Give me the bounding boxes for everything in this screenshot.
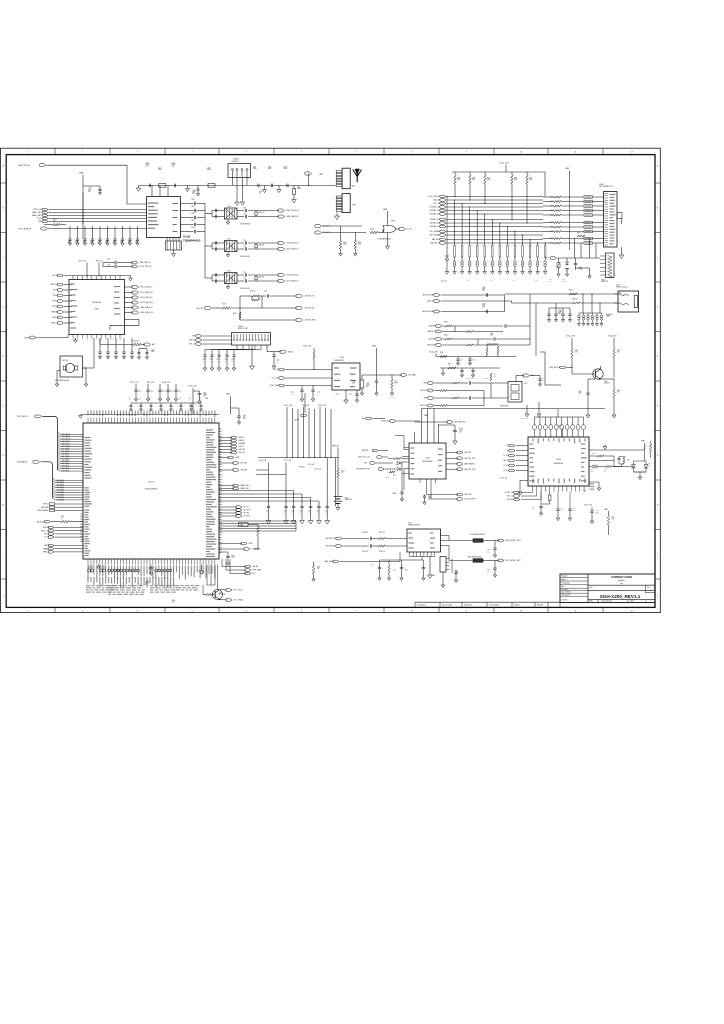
svg-text:Time Changed:: Time Changed: — [489, 604, 500, 606]
svg-text:AUDOUTN: AUDOUTN — [428, 344, 437, 347]
svg-text:18P: 18P — [83, 242, 85, 244]
svg-text:L139 BLM18PG181SN1D: L139 BLM18PG181SN1D — [467, 556, 482, 558]
svg-text:100NF: 100NF — [138, 391, 142, 393]
svg-text:VCCL_LIN: VCCL_LIN — [284, 460, 291, 462]
svg-text:C119: C119 — [107, 258, 110, 260]
svg-text:10NH: 10NH — [297, 188, 301, 190]
svg-text:C167: C167 — [459, 428, 462, 430]
svg-text:VCCD_2.8V: VCCD_2.8V — [78, 260, 86, 262]
svg-text:COL_DET: COL_DET — [272, 378, 279, 380]
svg-text:VEC_LCD: VEC_LCD — [507, 496, 515, 498]
svg-text:100K: 100K — [358, 244, 361, 246]
svg-text:100NF: 100NF — [572, 510, 576, 512]
svg-text:DSP_DB(12): DSP_DB(12) — [62, 441, 71, 443]
svg-text:Size: Size — [647, 587, 650, 589]
svg-text:VCCD_2.8V: VCCD_2.8V — [130, 382, 138, 384]
svg-text:R160: R160 — [448, 364, 451, 366]
svg-text:R158: R158 — [440, 352, 443, 354]
svg-text:10V: 10V — [232, 361, 234, 363]
svg-text:S-80840CLNB: S-80840CLNB — [334, 360, 344, 362]
svg-text:1UF: 1UF — [189, 399, 191, 401]
svg-text:09:45:51: 09:45:51 — [514, 604, 520, 606]
svg-text:16V: 16V — [583, 493, 585, 495]
svg-text:DTC114TE: DTC114TE — [219, 594, 226, 596]
svg-text:1UF: 1UF — [199, 399, 201, 401]
svg-text:100PF: 100PF — [284, 168, 288, 170]
svg-text:10V: 10V — [217, 361, 219, 363]
svg-text:4.7U: 4.7U — [472, 360, 475, 362]
svg-text:T101: T101 — [227, 238, 231, 240]
svg-text:10V: 10V — [291, 512, 293, 514]
svg-text:SCL_1V8: SCL_1V8 — [433, 203, 440, 205]
svg-text:R108: R108 — [343, 242, 347, 244]
svg-text:47K: 47K — [317, 568, 319, 570]
svg-text:R173 47K: R173 47K — [379, 551, 385, 553]
svg-text:18P: 18P — [135, 242, 137, 244]
svg-text:1.5P: 1.5P — [243, 213, 246, 215]
svg-text:ROW_SENS: ROW_SENS — [270, 385, 279, 387]
svg-text:6.3V: 6.3V — [243, 418, 246, 420]
svg-text:SFU-1.9GHZ(S): SFU-1.9GHZ(S) — [240, 288, 250, 290]
svg-text:VMICC_EN: VMICC_EN — [33, 209, 43, 211]
svg-text:R190 0: R190 0 — [444, 322, 448, 324]
svg-text:R121 NC: R121 NC — [250, 291, 255, 293]
svg-text:68PF: 68PF — [268, 168, 271, 170]
svg-text:UP_SDI: UP_SDI — [244, 513, 250, 515]
svg-text:10UF: 10UF — [349, 394, 352, 396]
svg-text:DPCS_PWR_IN: DPCS_PWR_IN — [140, 266, 152, 268]
svg-text:U110: U110 — [408, 523, 412, 525]
svg-text:22K: 22K — [627, 460, 629, 462]
svg-text:UP_CS: UP_CS — [244, 507, 249, 509]
svg-text:100NF: 100NF — [590, 470, 594, 472]
svg-text:10V: 10V — [225, 361, 227, 363]
svg-text:100NF: 100NF — [579, 269, 583, 271]
svg-text:4.7UF: 4.7UF — [459, 430, 463, 432]
svg-text:10M_OUT: 10M_OUT — [50, 284, 58, 286]
svg-text:100K: 100K — [529, 179, 532, 181]
svg-text:1.5P: 1.5P — [243, 272, 246, 274]
svg-text:OSC100: OSC100 — [62, 360, 68, 362]
svg-text:6.3V: 6.3V — [482, 307, 485, 309]
svg-text:DSP_DB(9): DSP_DB(9) — [62, 448, 70, 450]
svg-text:L107: L107 — [524, 383, 528, 385]
svg-text:R152 0: R152 0 — [385, 477, 389, 479]
svg-text:18P: 18P — [113, 242, 115, 244]
svg-text:C144: C144 — [122, 358, 125, 360]
svg-text:C164: C164 — [191, 227, 195, 229]
svg-text:10P: 10P — [532, 509, 534, 511]
svg-text:1.5P: 1.5P — [243, 240, 246, 242]
svg-text:10V: 10V — [266, 512, 268, 514]
svg-text:RC: RC — [259, 193, 261, 195]
svg-text:EMIF: EMIF — [490, 280, 493, 282]
svg-text:GSM_LNA_IN_P: GSM_LNA_IN_P — [286, 215, 300, 218]
svg-text:10V: 10V — [203, 396, 205, 398]
svg-text:R172 47K: R172 47K — [379, 532, 385, 534]
svg-text:10V: 10V — [300, 512, 302, 514]
svg-text:TX_DT8: TX_DT8 — [503, 465, 509, 467]
svg-text:DCS_LNA_IN_N: DCS_LNA_IN_N — [140, 301, 153, 304]
svg-text:DCS_LNA_IN_P: DCS_LNA_IN_P — [286, 248, 299, 251]
svg-text:VCCD_2.8V: VCCD_2.8V — [284, 405, 292, 407]
svg-text:16V: 16V — [428, 499, 430, 501]
svg-text:R103: R103 — [53, 219, 57, 221]
svg-text:18P: 18P — [128, 242, 130, 244]
svg-text:U109: U109 — [425, 458, 429, 460]
svg-text:100K: 100K — [343, 244, 346, 246]
svg-text:TX1: TX1 — [506, 450, 509, 452]
svg-text:CN103: CN103 — [238, 326, 243, 328]
svg-text:10K: 10K — [53, 221, 56, 223]
svg-text:VIB_DRV: VIB_DRV — [241, 470, 249, 472]
svg-text:20K: 20K — [617, 352, 619, 354]
svg-text:City: City — [620, 582, 623, 585]
svg-text:RB520S-30: RB520S-30 — [345, 499, 352, 501]
svg-text:T102: T102 — [227, 270, 231, 272]
svg-text:SFU-1.8GHZ(S): SFU-1.8GHZ(S) — [240, 256, 250, 258]
svg-text:SIM_ID: SIM_ID — [288, 351, 294, 353]
svg-text:KEY_ROW(0): KEY_ROW(0) — [234, 600, 244, 602]
svg-text:Designed by:: Designed by: — [417, 604, 426, 606]
svg-text:DSP_DB(13): DSP_DB(13) — [62, 439, 71, 441]
svg-text:PCS_LNA_IN_P: PCS_LNA_IN_P — [286, 280, 299, 283]
svg-text:REV: REV — [590, 601, 593, 603]
svg-text:R109: R109 — [358, 242, 362, 244]
svg-text:RST: RST — [253, 573, 256, 575]
svg-text:R191 0: R191 0 — [444, 335, 448, 337]
svg-text:100NF: 100NF — [170, 391, 174, 393]
svg-text:C160: C160 — [191, 199, 195, 201]
svg-text:18NF: 18NF — [151, 351, 154, 353]
svg-text:100K: 100K — [457, 179, 460, 181]
svg-text:10V: 10V — [203, 361, 205, 363]
svg-text:DCS_LNA_IN_P: DCS_LNA_IN_P — [140, 296, 153, 299]
svg-text:DSP_DB(4): DSP_DB(4) — [62, 461, 70, 463]
svg-text:L109 2.7N: L109 2.7N — [258, 212, 264, 214]
svg-text:6.3V: 6.3V — [172, 166, 175, 168]
svg-text:SIMCLK: SIMCLK — [239, 437, 246, 439]
svg-text:DSP_DB(8): DSP_DB(8) — [62, 451, 70, 453]
svg-text:PCS_LNA_IN_N: PCS_LNA_IN_N — [140, 291, 153, 294]
svg-text:T100: T100 — [227, 206, 231, 208]
svg-text:DSP_DB(1): DSP_DB(1) — [62, 468, 70, 470]
svg-text:CLKTCM_MC: CLKTCM_MC — [304, 308, 315, 310]
svg-text:10V: 10V — [317, 512, 319, 514]
svg-text:1.5P: 1.5P — [243, 246, 246, 248]
svg-text:GSM_PWR_IN: GSM_PWR_IN — [140, 262, 152, 264]
svg-text:2003-06-19: 2003-06-19 — [464, 604, 472, 606]
svg-text:SPK_PHONE_OUTP: SPK_PHONE_OUTP — [506, 560, 521, 562]
svg-text:SGH-X200_REV1.1: SGH-X200_REV1.1 — [600, 594, 641, 599]
svg-text:1K: 1K — [342, 472, 344, 474]
svg-text:L106: L106 — [207, 168, 210, 170]
svg-text:R226 10K: R226 10K — [572, 299, 578, 301]
svg-text:PCS_LNA_IN_N: PCS_LNA_IN_N — [286, 274, 299, 277]
svg-text:18P: 18P — [68, 242, 70, 244]
svg-text:7MM-2.52-2021-S: 7MM-2.52-2021-S — [616, 286, 628, 288]
svg-text:39K: 39K — [617, 392, 619, 394]
svg-text:GSM_LNA_IN_N: GSM_LNA_IN_N — [140, 311, 154, 314]
svg-text:DSP_DB(15): DSP_DB(15) — [62, 434, 71, 436]
svg-text:1NF: 1NF — [405, 570, 408, 572]
svg-text:U103: U103 — [340, 357, 344, 359]
svg-text:KEY_BL1: KEY_BL1 — [241, 463, 248, 465]
svg-text:C159 100NF 10V: C159 100NF 10V — [466, 378, 476, 380]
svg-text:VCCD_LIN: VCCD_LIN — [500, 478, 507, 480]
svg-text:C101: C101 — [88, 188, 92, 190]
svg-text:R177 0: R177 0 — [222, 304, 227, 306]
svg-text:DSP_DB(15:0): DSP_DB(15:0) — [17, 416, 29, 418]
svg-text:VREF: VREF — [249, 543, 253, 545]
svg-text:SIM 6P-2.3W: SIM 6P-2.3W — [238, 328, 248, 330]
svg-text:470: 470 — [575, 352, 577, 354]
svg-text:1UF: 1UF — [149, 399, 151, 401]
svg-text:GSM_LNA_IN_N: GSM_LNA_IN_N — [286, 209, 300, 212]
svg-text:16V: 16V — [455, 573, 457, 575]
svg-text:Address: Address — [618, 579, 624, 582]
svg-text:DSP_DB(3): DSP_DB(3) — [62, 463, 70, 465]
svg-text:EMIF: EMIF — [535, 280, 538, 282]
svg-text:MON_EXT: MON_EXT — [507, 499, 514, 501]
svg-text:1K: 1K — [61, 518, 63, 520]
svg-text:18P: 18P — [105, 242, 107, 244]
svg-text:C104: C104 — [146, 163, 149, 165]
svg-text:50V: 50V — [487, 572, 489, 574]
svg-text:10M_OUT: 10M_OUT — [196, 308, 204, 310]
svg-text:C105: C105 — [172, 163, 175, 165]
svg-text:L136 5.6N: L136 5.6N — [258, 277, 264, 279]
svg-text:VCCD_2.8V: VCCD_2.8V — [303, 346, 311, 348]
svg-text:50V: 50V — [277, 362, 279, 364]
svg-text:VMICC_EN: VMICC_EN — [41, 530, 49, 532]
svg-text:C141: C141 — [98, 358, 101, 360]
svg-text:UP_SCLK: UP_SCLK — [244, 510, 252, 512]
svg-text:VRF_2.8V: VRF_2.8V — [147, 382, 154, 384]
svg-text:22NF: 22NF — [578, 393, 581, 395]
svg-text:DSP_DB(6): DSP_DB(6) — [62, 456, 70, 458]
svg-text:100K: 100K — [472, 179, 475, 181]
svg-text:18P: 18P — [90, 242, 92, 244]
svg-text:UP_SDO: UP_SDO — [244, 516, 251, 518]
svg-text:S6B33B2X01: S6B33B2X01 — [554, 463, 564, 465]
svg-text:10V: 10V — [291, 394, 293, 396]
svg-text:C145: C145 — [130, 358, 133, 360]
svg-text:6.3V: 6.3V — [482, 290, 485, 292]
svg-text:CLK32K: CLK32K — [294, 420, 299, 422]
svg-text:DSP_AB(0:8): DSP_AB(0:8) — [17, 461, 28, 464]
svg-text:45_IN: 45_IN — [407, 229, 412, 231]
svg-text:1UF: 1UF — [169, 399, 171, 401]
svg-text:J: J — [657, 596, 658, 598]
svg-text:100NF: 100NF — [178, 391, 182, 393]
svg-text:DSP_DB(14): DSP_DB(14) — [62, 436, 71, 438]
svg-text:VCCD_2.8V: VCCD_2.8V — [566, 336, 576, 338]
svg-text:KEY_COL(0): KEY_COL(0) — [234, 590, 244, 592]
svg-text:C127: C127 — [264, 291, 267, 293]
svg-text:VRF_LIN: VRF_LIN — [299, 467, 305, 469]
svg-text:VBAT: VBAT — [383, 208, 387, 211]
svg-text:DCS_LNA_IN_N: DCS_LNA_IN_N — [286, 242, 299, 245]
svg-text:18P: 18P — [98, 242, 100, 244]
svg-text:CLKTCM_FMU: CLKTCM_FMU — [304, 320, 316, 322]
svg-text:1UF: 1UF — [179, 399, 181, 401]
svg-text:R142 10K: R142 10K — [133, 341, 139, 343]
svg-text:6.3V: 6.3V — [146, 166, 149, 168]
svg-text:U106: U106 — [556, 459, 561, 461]
svg-text:DSP_WBN: DSP_WBN — [41, 507, 49, 509]
svg-text:C154: C154 — [284, 166, 287, 168]
svg-text:6.3V: 6.3V — [145, 584, 148, 586]
svg-text:GSM_LNA_IN_P: GSM_LNA_IN_P — [140, 306, 154, 309]
svg-text:U102: U102 — [94, 309, 99, 311]
svg-text:DSP_DB(7): DSP_DB(7) — [62, 453, 70, 455]
svg-text:L106 5.6N: L106 5.6N — [258, 245, 264, 247]
svg-text:RLZTE11: RLZTE11 — [562, 281, 568, 283]
svg-text:R162 22K: R162 22K — [591, 453, 597, 455]
svg-text:10U: 10U — [460, 360, 462, 362]
svg-text:TBG_CS: TBG_CS — [503, 460, 509, 462]
svg-text:1UF: 1UF — [139, 399, 141, 401]
svg-text:VCCL_LIN: VCCL_LIN — [259, 460, 266, 462]
svg-text:SFU-900MHZ(S): SFU-900MHZ(S) — [240, 224, 251, 226]
svg-text:CLK32K_TBB: CLK32K_TBB — [505, 492, 514, 494]
svg-text:VLCD_DETECT: VLCD_DETECT — [428, 196, 440, 198]
svg-text:47NF: 47NF — [490, 335, 493, 337]
svg-text:RF_IF: RF_IF — [545, 258, 549, 260]
svg-text:R110 0: R110 0 — [370, 229, 375, 231]
svg-text:240R: 240R — [352, 383, 355, 385]
svg-text:C191 1UF: C191 1UF — [362, 551, 368, 553]
svg-text:VCCD_2.8V: VCCD_2.8V — [499, 162, 510, 164]
svg-text:LED: LED — [648, 465, 651, 467]
svg-text:C156: C156 — [268, 166, 271, 168]
svg-text:AOUTSN_EAR: AOUTSN_EAR — [423, 310, 435, 313]
svg-text:TX0: TX0 — [506, 445, 509, 447]
svg-text:SPK_PHONE_OUTN: SPK_PHONE_OUTN — [356, 469, 370, 471]
svg-text:SIM_RST: SIM_RST — [189, 340, 196, 342]
svg-text:R165 1.2K: R165 1.2K — [483, 378, 489, 380]
svg-text:CN102: CN102 — [616, 285, 621, 287]
svg-text:C190 1UF: C190 1UF — [362, 532, 368, 534]
svg-text:CF_DTB: CF_DTB — [503, 455, 509, 457]
svg-text:25V: 25V — [88, 191, 91, 193]
svg-text:6.3V: 6.3V — [558, 313, 561, 315]
svg-text:DSP_DB(11): DSP_DB(11) — [62, 444, 71, 446]
svg-text:100K: 100K — [514, 179, 517, 181]
svg-text:DSP_DB(0): DSP_DB(0) — [62, 471, 70, 473]
svg-text:2.2K: 2.2K — [494, 376, 497, 378]
svg-text:C163: C163 — [191, 220, 195, 222]
svg-text:TQM6M4002: TQM6M4002 — [183, 239, 201, 243]
svg-text:100NF: 100NF — [231, 557, 235, 559]
svg-text:DSP_ID: DSP_ID — [43, 504, 49, 506]
svg-text:C162: C162 — [191, 213, 195, 215]
svg-text:SB CHK: SB CHK — [537, 604, 543, 606]
svg-text:C121: C121 — [107, 265, 110, 267]
svg-text:VRF_2.8V: VRF_2.8V — [302, 405, 309, 407]
svg-text:VBAT: VBAT — [565, 167, 569, 170]
svg-text:BAND_SEL2: BAND_SEL2 — [32, 211, 42, 214]
svg-text:PWR_KEEP: PWR_KEEP — [253, 570, 262, 572]
svg-text:1.5P: 1.5P — [243, 278, 246, 280]
svg-text:DB CHK: DB CHK — [562, 599, 567, 601]
svg-text:20K: 20K — [644, 448, 646, 450]
svg-text:PCS_LNA_IN_P: PCS_LNA_IN_P — [140, 286, 153, 289]
svg-text:22K: 22K — [604, 470, 606, 472]
svg-text:D106: D106 — [393, 475, 396, 477]
svg-text:CF_DT8: CF_DT8 — [503, 470, 509, 472]
svg-text:6.3V: 6.3V — [459, 431, 462, 433]
svg-text:L110: L110 — [158, 168, 161, 170]
svg-text:GSM_SWITCH: GSM_SWITCH — [549, 367, 561, 369]
svg-text:VCCD_LIN: VCCD_LIN — [308, 464, 315, 466]
svg-text:1UF: 1UF — [88, 189, 91, 191]
svg-text:BAND_SEL1: BAND_SEL1 — [32, 214, 42, 217]
svg-text:10NH: 10NH — [253, 168, 256, 170]
svg-text:1UF: 1UF — [159, 399, 161, 401]
svg-text:KEY_SENSE1: KEY_SENSE1 — [430, 235, 440, 237]
svg-text:KEY_SENSE0: KEY_SENSE0 — [430, 231, 440, 233]
svg-text:R227 0: R227 0 — [577, 233, 581, 235]
svg-text:100NF: 100NF — [146, 164, 150, 166]
svg-text:25V: 25V — [192, 193, 194, 195]
svg-text:CSP2000B01: CSP2000B01 — [144, 489, 158, 491]
svg-text:C142: C142 — [106, 358, 109, 360]
svg-text:24P CONNECTOR: 24P CONNECTOR — [599, 186, 613, 188]
svg-text:2SC3837: 2SC3837 — [604, 383, 610, 385]
svg-text:L138 BLM18PG181SN1D: L138 BLM18PG181SN1D — [470, 534, 485, 536]
svg-text:10V: 10V — [308, 512, 310, 514]
svg-text:10V: 10V — [210, 361, 212, 363]
svg-text:VBPI: VBPI — [38, 221, 42, 223]
svg-text:CLKTCM_TX: CLKTCM_TX — [304, 296, 315, 298]
svg-text:COMPANY NAME: COMPANY NAME — [611, 575, 633, 579]
svg-text:1.5P: 1.5P — [243, 207, 246, 209]
svg-text:TX_EN: TX_EN — [37, 218, 43, 220]
svg-text:295.7: 295.7 — [395, 383, 399, 385]
svg-text:4.7K: 4.7K — [612, 519, 615, 521]
svg-text:SPK_PHONE_OUTN: SPK_PHONE_OUTN — [506, 540, 522, 542]
svg-text:VCCD_2.8V: VCCD_2.8V — [188, 386, 198, 388]
svg-text:B200: B200 — [345, 498, 348, 500]
svg-text:16V: 16V — [317, 394, 319, 396]
svg-text:L116: L116 — [253, 166, 256, 168]
svg-text:SIM_DET: SIM_DET — [239, 449, 246, 451]
svg-text:KMS-312: KMS-312 — [232, 161, 240, 163]
svg-text:18P: 18P — [120, 242, 122, 244]
svg-text:100NF: 100NF — [336, 394, 340, 396]
svg-text:47K: 47K — [370, 566, 372, 568]
svg-text:4.7UF: 4.7UF — [560, 510, 564, 512]
svg-text:VRF_2.8V: VRF_2.8V — [96, 260, 103, 262]
svg-text:16V: 16V — [366, 386, 368, 388]
svg-text:16V: 16V — [596, 513, 598, 515]
svg-text:10K: 10K — [172, 602, 174, 604]
svg-text:C143: C143 — [114, 358, 117, 360]
svg-text:VCC6_LIN: VCC6_LIN — [315, 469, 321, 471]
svg-text:SPK: SPK — [364, 463, 367, 465]
svg-text:100NF: 100NF — [162, 391, 166, 393]
svg-text:1UF: 1UF — [129, 399, 131, 401]
svg-text:C161: C161 — [191, 206, 195, 208]
svg-text:100NF: 100NF — [172, 164, 176, 166]
svg-text:EMIF: EMIF — [467, 280, 470, 282]
svg-text:U108: U108 — [391, 220, 395, 222]
svg-text:SIM_ID: SIM_ID — [239, 446, 245, 448]
svg-text:27NH: 27NH — [158, 169, 161, 171]
svg-text:10V: 10V — [325, 512, 327, 514]
